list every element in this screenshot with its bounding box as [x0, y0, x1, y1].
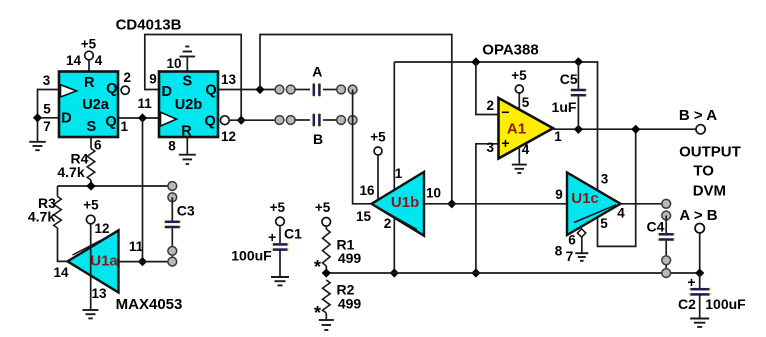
- wire to cap B: [295, 119, 310, 121]
- svg-text:+: +: [268, 229, 276, 245]
- ground above U2b pin10 inverted: [186, 57, 188, 73]
- resistor R3 4.7k: [57, 186, 59, 197]
- flip-flop U2b CD4013B: [159, 72, 218, 138]
- ground U1a pin13: [83, 309, 99, 311]
- A1 pin4 ground: [518, 147, 520, 165]
- svg-text:+: +: [687, 274, 695, 290]
- capacitor C1 100uF electrolytic: [272, 243, 289, 246]
- svg-text:499: 499: [338, 295, 362, 311]
- output bubble U2b pin12: [220, 116, 229, 125]
- wire U1b pin10 to U1c pin9: [424, 203, 568, 205]
- svg-text:12: 12: [94, 221, 109, 236]
- svg-text:D: D: [162, 84, 172, 100]
- node junction U2b pin12 row: [237, 116, 246, 125]
- svg-text:5: 5: [600, 216, 608, 231]
- svg-text:1uF: 1uF: [552, 99, 577, 115]
- svg-text:15: 15: [356, 209, 372, 224]
- svg-text:100uF: 100uF: [705, 296, 746, 312]
- node junction pin1 row: [138, 113, 147, 122]
- svg-text:Q: Q: [105, 114, 116, 130]
- svg-text:R: R: [84, 75, 95, 91]
- wire C1 top: [279, 226, 281, 244]
- capacitor C5 1uF: [577, 62, 579, 89]
- svg-text:CD4013B: CD4013B: [116, 17, 182, 34]
- wire bottom rail: [326, 272, 699, 274]
- wire long vertical from pin1 row down to U1a pin11: [142, 118, 144, 262]
- svg-text:3: 3: [601, 172, 609, 187]
- svg-text:8: 8: [555, 244, 563, 259]
- wire U1a control vertical: [90, 224, 92, 310]
- node junction U1c loop output: [631, 125, 640, 134]
- svg-text:5: 5: [522, 95, 530, 110]
- svg-text:1: 1: [554, 129, 562, 144]
- svg-text:+5: +5: [81, 36, 97, 51]
- resistor R1 499: [325, 226, 327, 229]
- U1c switch lever: [574, 205, 616, 223]
- wire to cap A: [295, 89, 310, 91]
- svg-text:14: 14: [53, 265, 69, 280]
- analog switch U1c MAX4053: [567, 173, 621, 236]
- capacitor C2 100uF electrolytic: [699, 273, 701, 288]
- analog switch U1a MAX4053: [68, 230, 119, 292]
- node junction C2 top: [695, 268, 704, 277]
- wire C1 bottom and ground: [279, 250, 281, 277]
- svg-text:7: 7: [566, 249, 574, 264]
- wire A1 pin2 inverting input: [476, 62, 499, 115]
- svg-text:1: 1: [395, 166, 403, 181]
- connector pads cap B right: [337, 116, 346, 125]
- wire from cap pads down to U1b common: [353, 90, 372, 204]
- svg-text:MAX4053: MAX4053: [116, 296, 183, 313]
- node junction C5 bottom: [574, 125, 583, 134]
- wire U2b pin12 to cap B row: [229, 119, 276, 121]
- wire A1 output row: [552, 128, 696, 130]
- wire Q rail from pin13 up and right to U1b pin10 column: [260, 35, 452, 204]
- svg-text:11: 11: [129, 239, 144, 254]
- svg-text:*: *: [314, 257, 321, 277]
- node junction C5 top: [574, 57, 583, 66]
- U2a Qbar bubble pin2: [121, 86, 129, 94]
- ground U1c pin7: [581, 237, 583, 253]
- svg-text:2: 2: [384, 216, 392, 231]
- svg-text:A1: A1: [507, 121, 526, 138]
- node junction pin13 row: [255, 85, 264, 94]
- wire U2a pin3 clock input: [38, 89, 61, 91]
- wire U2a pin6 to R4: [90, 137, 92, 149]
- svg-text:B: B: [313, 131, 323, 147]
- svg-text:+5: +5: [370, 130, 386, 145]
- wire U2b pin13 Q output: [218, 89, 276, 91]
- svg-text:+5: +5: [83, 197, 99, 212]
- node junction U1b pin2 bottom rail: [390, 268, 399, 277]
- ground C2: [690, 318, 709, 320]
- node junction A1 pin2 takeoff: [471, 57, 480, 66]
- svg-text:6: 6: [94, 138, 102, 153]
- svg-text:3: 3: [487, 140, 495, 155]
- svg-text:U1a: U1a: [90, 252, 118, 269]
- svg-text:5: 5: [43, 102, 51, 117]
- svg-text:A > B: A > B: [679, 207, 717, 224]
- svg-text:U1b: U1b: [391, 194, 419, 211]
- ground U2a pins 5/7: [29, 141, 46, 143]
- wire U2a pin14 supply stub: [88, 60, 90, 73]
- svg-text:1: 1: [121, 119, 129, 134]
- analog switch U1b MAX4053: [372, 172, 425, 236]
- svg-text:Q: Q: [106, 81, 117, 97]
- svg-text:2: 2: [487, 98, 495, 113]
- resistor R2 499: [323, 280, 331, 313]
- U2b clock triangle pin11: [161, 112, 177, 126]
- svg-text:6: 6: [568, 233, 576, 248]
- resistor R4 4.7k: [87, 149, 95, 181]
- wire U1a pin11 row to C3: [119, 261, 170, 263]
- svg-text:10: 10: [426, 186, 441, 201]
- svg-text:Q: Q: [205, 113, 216, 129]
- wire U2a left vertical pins 3-5-7: [37, 89, 39, 142]
- svg-text:+5: +5: [511, 68, 527, 83]
- svg-text:+5: +5: [270, 200, 286, 215]
- flip-flop U2a CD4013B: [59, 72, 118, 138]
- svg-text:C3: C3: [177, 202, 195, 218]
- connector pads cap A left: [275, 85, 284, 94]
- node junction U1b pin10: [447, 199, 456, 208]
- svg-text:Q: Q: [205, 83, 216, 99]
- node R4 bottom junction row: [58, 185, 169, 187]
- wire A>B terminal down to rail: [699, 233, 701, 273]
- svg-text:10: 10: [166, 56, 181, 71]
- wire rail to A1 and C5 and U1c loop: [394, 62, 635, 246]
- svg-text:A: A: [312, 64, 322, 80]
- svg-text:U2a: U2a: [82, 97, 110, 113]
- wire U1b pin1/pin2 vertical: [393, 62, 395, 273]
- U1b switch lever: [373, 205, 417, 230]
- svg-text:4: 4: [617, 205, 625, 220]
- wire A1 pin3 non-inverting input: [476, 144, 499, 273]
- svg-text:D: D: [61, 111, 71, 127]
- svg-text:4: 4: [522, 142, 530, 157]
- capacitor C3: [168, 182, 177, 191]
- svg-text:100uF: 100uF: [231, 248, 272, 264]
- ground below U2b pin8: [186, 137, 188, 155]
- node junction U1a pin11: [138, 257, 147, 266]
- svg-text:+5: +5: [315, 200, 331, 215]
- ground R2: [319, 319, 334, 321]
- node junction R1-R2 bottom rail: [322, 268, 331, 277]
- svg-text:4.7k: 4.7k: [57, 164, 84, 180]
- svg-text:S: S: [86, 119, 96, 135]
- connector pads cap A right: [337, 85, 346, 94]
- svg-text:16: 16: [359, 183, 375, 198]
- U1a switch lever: [73, 236, 111, 256]
- svg-text:8: 8: [168, 138, 176, 153]
- wire U2a D input pin5/7: [38, 117, 61, 119]
- capacitor B: [313, 113, 316, 128]
- svg-text:C5: C5: [560, 71, 578, 87]
- U1c control bubble pin6: [577, 229, 585, 237]
- svg-text:14: 14: [66, 53, 82, 68]
- svg-text:U2b: U2b: [175, 97, 203, 113]
- svg-text:13: 13: [221, 72, 237, 87]
- svg-text:4.7k: 4.7k: [28, 209, 55, 225]
- svg-text:9: 9: [149, 72, 157, 87]
- node junction A1 pin3 bottom rail: [471, 268, 480, 277]
- svg-text:9: 9: [555, 187, 563, 202]
- U2a clock triangle pin3: [61, 85, 77, 97]
- svg-text:4: 4: [95, 53, 103, 68]
- node junction at U2a D input: [33, 113, 42, 122]
- svg-text:2: 2: [124, 70, 132, 85]
- capacitor C4 with connector pads: [662, 199, 671, 208]
- svg-text:OUTPUT: OUTPUT: [679, 143, 741, 160]
- svg-text:C4: C4: [647, 218, 665, 234]
- svg-text:B > A: B > A: [679, 107, 717, 124]
- svg-text:C2: C2: [678, 296, 696, 312]
- wire CD4013B feedback loop Qbar to D pin9: [145, 35, 241, 121]
- op-amp A1 OPA388: [499, 98, 554, 159]
- svg-text:12: 12: [221, 129, 236, 144]
- svg-text:499: 499: [338, 250, 362, 266]
- svg-text:C1: C1: [284, 225, 302, 241]
- wire U1c output to C4: [621, 203, 663, 205]
- svg-text:13: 13: [91, 286, 107, 301]
- svg-text:3: 3: [43, 73, 51, 88]
- capacitor A: [313, 83, 316, 98]
- wire U1b +5 stub: [377, 155, 379, 200]
- svg-text:DVM: DVM: [693, 183, 726, 200]
- svg-text:U1c: U1c: [571, 190, 599, 207]
- svg-text:S: S: [182, 74, 192, 90]
- svg-text:11: 11: [137, 96, 152, 111]
- svg-text:OPA388: OPA388: [482, 41, 538, 58]
- svg-text:−: −: [501, 104, 509, 120]
- connector pads cap B left: [275, 116, 284, 125]
- svg-text:TO: TO: [693, 163, 714, 180]
- wire U2a pin1 Q to U2b clock pin11: [118, 117, 160, 119]
- svg-text:7: 7: [43, 119, 51, 134]
